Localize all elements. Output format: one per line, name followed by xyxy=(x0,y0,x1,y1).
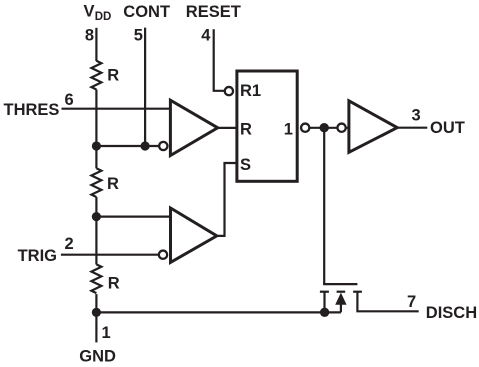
svg-text:TRIG: TRIG xyxy=(18,247,57,265)
svg-text:3: 3 xyxy=(412,107,421,125)
svg-text:OUT: OUT xyxy=(430,119,465,137)
svg-text:DISCH: DISCH xyxy=(426,304,477,322)
svg-text:DD: DD xyxy=(95,11,112,23)
svg-text:THRES: THRES xyxy=(4,101,60,119)
svg-text:5: 5 xyxy=(134,27,143,45)
svg-text:8: 8 xyxy=(85,27,94,45)
svg-text:2: 2 xyxy=(65,235,74,253)
svg-text:1: 1 xyxy=(102,324,111,342)
svg-text:1: 1 xyxy=(284,120,293,138)
svg-text:7: 7 xyxy=(407,293,416,311)
svg-text:S: S xyxy=(240,156,251,174)
svg-text:R: R xyxy=(240,120,252,138)
svg-text:4: 4 xyxy=(201,27,211,45)
svg-text:6: 6 xyxy=(65,91,74,109)
svg-text:RESET: RESET xyxy=(186,3,241,21)
svg-text:R1: R1 xyxy=(240,82,261,100)
svg-text:R: R xyxy=(108,274,120,292)
svg-text:V: V xyxy=(84,3,95,21)
svg-text:R: R xyxy=(107,66,119,84)
svg-text:GND: GND xyxy=(79,348,116,366)
svg-text:CONT: CONT xyxy=(123,3,170,21)
svg-text:R: R xyxy=(107,175,119,193)
